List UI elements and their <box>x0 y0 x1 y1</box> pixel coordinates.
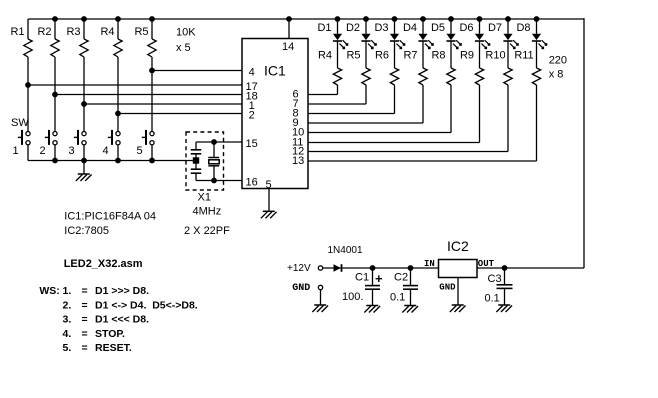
svg-text:+: + <box>375 271 383 286</box>
svg-text:C3: C3 <box>488 273 502 285</box>
svg-text:RESET.: RESET. <box>95 342 132 354</box>
svg-text:x 5: x 5 <box>176 42 191 54</box>
svg-text:SW: SW <box>11 117 29 129</box>
svg-text:X1: X1 <box>198 192 211 204</box>
svg-text:2 X 22PF: 2 X 22PF <box>184 225 230 237</box>
svg-text:D8: D8 <box>516 22 530 34</box>
svg-text:GND: GND <box>439 283 456 293</box>
svg-text:=: = <box>82 299 88 311</box>
svg-text:R11: R11 <box>514 50 533 62</box>
svg-text:R4: R4 <box>318 50 332 62</box>
svg-text:4: 4 <box>249 67 255 79</box>
svg-text:D5: D5 <box>431 22 445 34</box>
svg-text:R3: R3 <box>66 26 80 38</box>
svg-text:=: = <box>82 328 88 340</box>
svg-text:D7: D7 <box>488 22 502 34</box>
svg-text:GND: GND <box>292 283 310 294</box>
svg-text:+12V: +12V <box>287 263 311 274</box>
svg-text:R5: R5 <box>346 50 360 62</box>
svg-text:R2: R2 <box>37 26 51 38</box>
svg-text:R9: R9 <box>460 50 474 62</box>
svg-text:220: 220 <box>549 55 567 67</box>
svg-text:10K: 10K <box>176 27 196 39</box>
svg-text:D6: D6 <box>459 22 473 34</box>
svg-text:D1 >>> D8.: D1 >>> D8. <box>95 285 149 297</box>
svg-text:OUT: OUT <box>478 259 495 269</box>
svg-text:1.: 1. <box>63 285 72 297</box>
svg-text:C2: C2 <box>394 272 408 284</box>
svg-text:16: 16 <box>246 177 258 189</box>
svg-text:STOP.: STOP. <box>95 328 125 340</box>
svg-text:1N4001: 1N4001 <box>328 245 363 256</box>
svg-text:D1 <<< D8.: D1 <<< D8. <box>95 314 149 326</box>
svg-text:WS:: WS: <box>39 285 59 297</box>
svg-text:14: 14 <box>282 41 294 53</box>
svg-text:R4: R4 <box>100 26 114 38</box>
svg-text:D3: D3 <box>374 22 388 34</box>
svg-text:IC1:PIC16F84A 04: IC1:PIC16F84A 04 <box>64 211 156 223</box>
svg-text:2: 2 <box>249 110 255 122</box>
svg-text:LED2_X32.asm: LED2_X32.asm <box>64 258 143 270</box>
svg-text:D2: D2 <box>346 22 360 34</box>
svg-text:2: 2 <box>39 145 45 157</box>
svg-text:1: 1 <box>12 145 18 157</box>
svg-text:0.1: 0.1 <box>485 293 500 305</box>
svg-text:D1 <-> D4. D5<->D8.: D1 <-> D4. D5<->D8. <box>95 299 198 311</box>
svg-text:15: 15 <box>246 138 258 150</box>
svg-text:4.: 4. <box>63 328 72 340</box>
svg-text:R1: R1 <box>10 26 24 38</box>
svg-text:4: 4 <box>102 145 108 157</box>
svg-text:13: 13 <box>292 155 304 167</box>
svg-text:5: 5 <box>266 179 272 191</box>
svg-text:D4: D4 <box>403 22 417 34</box>
svg-text:0.1: 0.1 <box>390 292 405 304</box>
svg-text:3: 3 <box>68 145 74 157</box>
svg-text:R6: R6 <box>375 50 389 62</box>
svg-text:2.: 2. <box>63 299 72 311</box>
svg-text:4MHz: 4MHz <box>193 206 222 218</box>
svg-text:3.: 3. <box>63 314 72 326</box>
svg-text:IC2:7805: IC2:7805 <box>64 225 109 237</box>
svg-text:C1: C1 <box>355 272 369 284</box>
svg-text:D1: D1 <box>317 22 331 34</box>
svg-text:x 8: x 8 <box>549 69 564 81</box>
svg-text:5: 5 <box>136 145 142 157</box>
svg-text:5.: 5. <box>63 342 72 354</box>
svg-text:R5: R5 <box>134 26 148 38</box>
svg-text:R10: R10 <box>485 50 505 62</box>
svg-text:IC2: IC2 <box>447 238 469 254</box>
svg-text:=: = <box>82 285 88 297</box>
svg-text:=: = <box>82 342 88 354</box>
svg-text:IC1: IC1 <box>264 63 286 79</box>
svg-text:R7: R7 <box>403 50 417 62</box>
svg-text:R8: R8 <box>431 50 445 62</box>
svg-text:IN: IN <box>424 259 435 269</box>
svg-text:=: = <box>82 314 88 326</box>
svg-text:100.: 100. <box>342 291 363 303</box>
